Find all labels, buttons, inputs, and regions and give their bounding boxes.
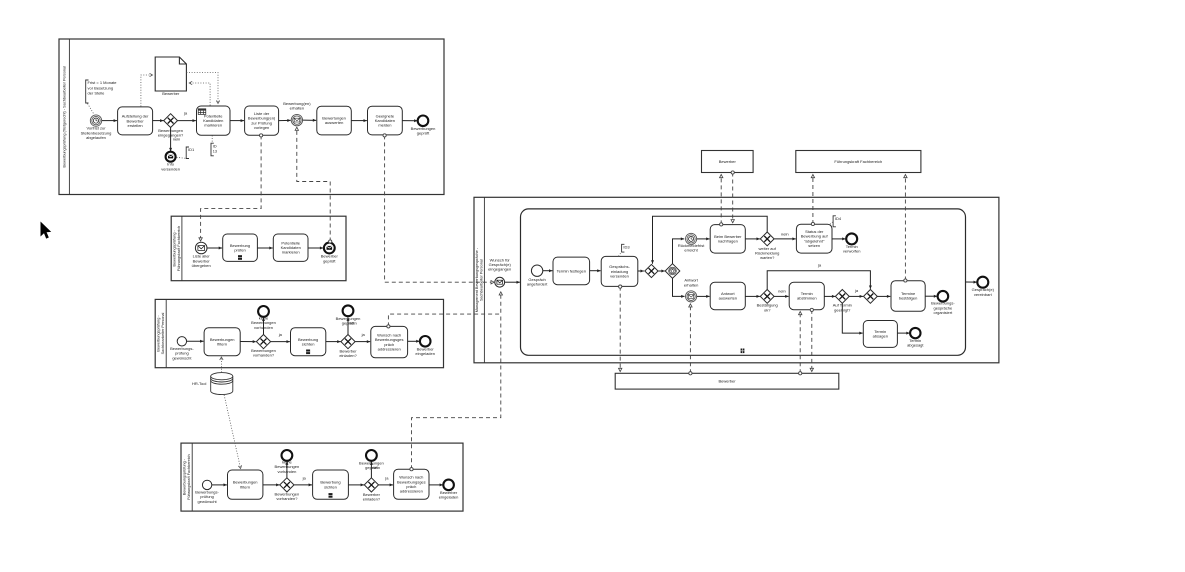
svg-text:Bewerbungsprüfung -: Bewerbungsprüfung - [157,315,161,352]
sequence flow subprocess to pool end [966,281,977,284]
pool: Management Bewerbungsgespräche - Sachbearbeiter Personal [474,197,999,362]
association HR-Tool to Bewerbungen filtern pool3 [220,357,223,372]
svg-text:sichten: sichten [324,484,337,489]
task: Wunsch nach Bewerbungsgespräch addressieren (pool4) [394,469,429,499]
svg-text:prüfen: prüfen [234,247,245,252]
svg-text:einladen?: einladen? [339,353,357,358]
association task2 to data object [189,81,210,105]
association task2 to ID13 [211,135,213,142]
gateway: Auf Termin geeinigt? [835,290,849,304]
end event: Termin verworfen [846,233,857,244]
message flow: Beim Bewerber nachfragen to Bewerber pool [720,175,723,226]
sequence flow [824,295,835,298]
sequence flow [774,295,788,298]
svg-text:Bewerber: Bewerber [719,159,737,164]
loopback ja from Bestätigung to merge2 [767,271,872,290]
association to ID3 [619,252,622,256]
message flow: Gesprächseinladung to Bewerber pool unten [619,285,622,372]
svg-text:übergeben: übergeben [192,263,211,268]
svg-text:auswerten: auswerten [719,296,737,301]
sequence flow [349,483,365,486]
task: Bewerbungen filtern (pool4) [228,470,263,499]
flow to end Bewerbungen geprüft [347,318,350,335]
svg-text:nein: nein [173,136,181,141]
svg-text:erstellen: erstellen [128,123,143,128]
gateway: Bewerbungen vorhanden? (pool3) [256,335,270,349]
svg-text:sichten: sichten [302,341,315,346]
sequence flow [102,119,117,122]
svg-text:der Stelle: der Stelle [88,91,106,96]
sequence flow [590,269,601,272]
svg-text:ID4: ID4 [835,216,842,221]
flow to end [285,462,288,478]
flow to end keine Bewerbungen [262,318,265,335]
end event: Bewerbungen geprüft (pool3) [343,305,354,316]
sequence flow [543,269,553,272]
svg-text:ID1: ID1 [188,147,195,152]
svg-text:warten?: warten? [760,255,775,260]
svg-text:nachfragen: nachfragen [718,239,738,244]
svg-text:13: 13 [213,150,217,154]
label nein [778,288,786,293]
message flow: Liste der Bewerbung(en) to pool2 start [199,134,263,241]
task: Bewertungen auswerten [317,106,352,135]
flow to end [370,462,373,478]
flow event-gw down to message catch [673,278,685,298]
end event: Bewerber eingeladen (pool3) [420,336,431,347]
svg-text:Management Bewerbungsgespräche: Management Bewerbungsgespräche - [475,247,479,312]
svg-text:gewünscht: gewünscht [172,355,192,360]
task: Bewerbung sichten (pool4) [313,470,349,499]
svg-text:verworfen: verworfen [843,249,861,254]
end event: Bewerbungen geprüft [418,116,429,127]
message flow: Wunsch nach (pool3) to pool5 start event [387,292,503,328]
svg-text:abgelaufen: abgelaufen [86,135,106,140]
end event: keine Bewerbungen vorhanden (pool4) [282,450,293,461]
start event: Bewerbungsprüfung gewünscht (pool3) [177,337,186,346]
pool: Führungskraft Fachbereich [796,151,921,173]
svg-text:nein: nein [349,320,357,325]
svg-text:vereinbart: vereinbart [974,292,993,297]
svg-text:filtern: filtern [217,341,227,346]
svg-text:versenden: versenden [610,274,629,279]
svg-text:nein: nein [778,288,786,293]
label ja [361,332,366,337]
sequence flow [355,340,370,343]
sequence flow [351,119,367,122]
gateway: Bestätigung ok? [760,290,774,304]
sequence flow [849,295,863,298]
timer intermediate event: Rückmeldefrist erreicht [686,233,697,244]
event-based gateway [665,264,680,279]
message flow: Wunsch nach (pool4) to pool5 start event [410,316,501,471]
subprocess marker [741,349,745,354]
sequence flow nein down [169,128,172,152]
message flow: Geeignete Kandidaten melden to pool5 start [383,134,494,284]
message flow: Bewerber pool to Beim Bewerber nachfragen [731,171,734,223]
sequence flow [326,340,341,343]
start event: Bewerbungsprüfung gewünscht (pool4) [202,480,211,489]
message flow: Termine bestätigen to Führungskraft pool [904,175,907,283]
sequence flow [774,237,796,240]
end event: Bewerbungsgespräche organisiert [938,291,949,302]
svg-text:addressieren: addressieren [400,489,423,494]
message flow: Termin abstimmen to Bewerber pool unten [810,308,813,371]
association HR-Tool to Bewerbungen filtern pool4 [224,395,242,469]
gateway: Bewerber einladen? (pool3) [341,335,355,349]
svg-text:eingegangen: eingegangen [488,267,511,272]
annotation ID 13 [211,143,217,156]
association data object to task2 [186,73,219,104]
task: Geeignete Kandidaten melden [368,106,403,135]
svg-text:addressieren: addressieren [378,347,401,352]
label ja [854,288,859,293]
svg-text:abgesagt: abgesagt [907,343,924,348]
task: Liste der Bewerbung(en) zur Prüfung vorlegen [245,106,279,135]
data object: Bewerber [155,57,186,91]
gateway: weiter auf Rückmeldung warten? [760,232,774,246]
message start event: Liste aller Bewerber übergeben [195,242,207,254]
svg-text:ok?: ok? [764,307,771,312]
svg-text:geprüft: geprüft [323,258,336,263]
sequence flow [408,340,420,343]
svg-text:einladen?: einladen? [363,497,381,502]
pool: Bewerbungsprüfung (fristgerecht) - Sachbearbeiter Personal [59,39,444,195]
label ja [183,111,188,116]
sequence flow [429,483,443,486]
svg-text:gewünscht: gewünscht [198,499,218,504]
message end event: Bewerber geprüft [324,243,335,254]
svg-text:Führungskraft Fachbereich: Führungskraft Fachbereich [177,226,181,271]
sequence flow [638,270,644,273]
sequence flow [925,295,937,298]
label nein [781,231,789,236]
svg-text:vorhanden?: vorhanden? [253,353,275,358]
pool: Bewerbungsprüfung - Führungskraft Fachbereich (unten) [181,443,463,511]
svg-text:Sachbearbeiter Personal: Sachbearbeiter Personal [161,312,165,354]
svg-text:Bewerbungsprüfung -: Bewerbungsprüfung - [172,230,176,267]
svg-text:angefordert: angefordert [527,282,548,287]
sequence flow [153,119,164,122]
sequence flow to subprocess [505,281,520,284]
task: Potentielle Kandidaten markieren (pool2) [273,234,308,261]
sequence flow [230,119,244,122]
task: Wunsch nach Bewerbungsgespräch addressieren (pool3) [371,326,408,357]
task: Potentielle Kandidaten markieren (pool1) [197,106,231,135]
sequence flow [258,247,273,250]
sequence flow [658,270,665,273]
task: Bewerbung sichten (pool3) [291,328,326,356]
sequence flow [279,119,291,122]
annotation ID1 [186,147,195,159]
svg-text:versenden: versenden [161,166,180,171]
sequence flow [697,295,710,298]
sequence flow [898,332,910,335]
sequence flow [379,483,393,486]
start event: Gespräch angefordert [531,265,542,276]
svg-text:Führungskraft Fachbereich: Führungskraft Fachbereich [834,159,882,164]
svg-text:ID3: ID3 [623,245,630,250]
label ja [302,476,307,481]
message flow: Status der Bewerbung to Führungskraft pool [811,175,814,226]
svg-text:eingeladen: eingeladen [439,495,459,500]
task: Termin festlegen [553,257,590,285]
svg-text:nein: nein [781,231,789,236]
sequence flow [303,119,317,122]
gateway: Bewerbungen vorhanden? (pool4) [280,478,294,492]
end event: Termin abgesagt [910,328,920,338]
gateway: Bewerber einladen? (pool4) [364,478,378,492]
message flow: Bewerber pool unten to Antwort erhalten [689,304,692,375]
subprocess container [521,209,966,355]
task: Aufstellung der Bewerber erstellen [118,107,153,135]
svg-text:markieren: markieren [282,250,300,255]
message catch event: Bewerbung(en) erhalten [291,114,302,125]
sequence flow [697,237,710,240]
flow event-gw up to timer [673,237,685,263]
svg-text:vorlegen: vorlegen [254,125,269,130]
svg-text:Bewerber: Bewerber [162,91,180,96]
task: Termin absagen [863,321,897,348]
timer start event: Vorfrist zur Stellenbesetzung abgelaufen [90,115,101,126]
svg-text:Bewerber: Bewerber [718,379,736,384]
end event: keine Bewerbungen vorhanden (pool3) [258,306,269,317]
association to ID1 [177,157,186,158]
task: Termin abstimmen [789,282,824,309]
sequence flow [745,295,760,298]
annotation ID3 [622,244,631,252]
task: Gesprächseinladung versenden [601,256,638,286]
gateway merge before event gateway [645,264,658,277]
svg-text:filtern: filtern [240,484,250,489]
svg-text:eingeladen: eingeladen [415,351,435,356]
pool: Bewerber (oben) [702,151,754,173]
task: Status der Bewerbung auf abgelehnt setzen [796,224,832,253]
sequence flow [745,237,760,240]
svg-text:vorhanden?: vorhanden? [276,496,298,501]
pool: Bewerber (unten) [615,373,839,389]
association annotation to timer start [88,104,94,114]
svg-text:Bewerbungsprüfung -: Bewerbungsprüfung - [183,458,187,495]
sequence flow [178,119,196,122]
end event: Bewerber eingeladen (pool4) [443,480,454,491]
gateway: Bewerbungen eingegangen? [164,114,178,128]
gateway merge2 [864,290,878,304]
task: Antwort auswerten [710,282,745,309]
task: Bewerbung prüfen [223,234,258,261]
annotation ID4 [833,216,842,227]
sequence flow [187,340,204,343]
label ja [278,332,283,337]
data store: HR-Tool [211,373,233,395]
svg-text:organisiert: organisiert [934,310,954,315]
task: Termine bestätigen [891,281,925,312]
svg-text:geprüft: geprüft [417,131,430,136]
svg-text:abstimmen: abstimmen [797,296,817,301]
task: Bewerbungen filtern (pool3) [204,328,240,356]
svg-text:absagen: absagen [873,334,888,339]
end event: Bewerbungen geprüft (pool4) [366,450,377,461]
flow Auf Termin nein down to Termin absagen [842,303,862,334]
svg-text:erhalten: erhalten [684,282,698,287]
loopback ja to merge gateway [651,216,767,263]
svg-text:Bewerbungsprüfung (fristgerech: Bewerbungsprüfung (fristgerecht) - Sachb… [62,66,66,168]
svg-text:nein: nein [373,465,381,470]
sequence flow [402,119,417,122]
message flow: pool2 end to Bewerbung(en) erhalten [295,127,332,243]
svg-text:melden: melden [378,123,391,128]
sequence flow [263,483,280,486]
message flow: Bewerber pool unten to Termin abstimmen [799,312,802,375]
svg-text:Sachbearbeiter Personal: Sachbearbeiter Personal [480,259,484,301]
sequence flow [294,483,312,486]
message start event: Wunsch für Gespräch(e) eingegangen [495,277,505,287]
svg-text:auswerten: auswerten [325,120,343,125]
svg-text:vorhanden: vorhanden [277,469,296,474]
pool: Bewerbungsprüfung - Sachbearbeiter Personal [155,299,443,367]
svg-text:vorhanden: vorhanden [254,325,273,330]
sequence flow [832,237,846,240]
svg-text:setzen: setzen [808,243,820,248]
svg-text:Termin festlegen: Termin festlegen [557,268,586,273]
label ja [384,476,389,481]
pool: Bewerbungsprüfung - Führungskraft Fachbereich (oben) [171,216,346,281]
sequence flow [877,295,890,298]
svg-text:Führungskraft Fachbereich: Führungskraft Fachbereich [187,454,191,499]
svg-text:bestätigen: bestätigen [899,296,917,301]
sequence flow [207,247,222,250]
task: Beim Bewerber nachfragen [710,225,745,254]
svg-text:HR-Tool: HR-Tool [192,381,207,386]
message end event: Info versenden [166,152,176,162]
label ja [817,262,822,267]
sequence flow [308,247,323,250]
association to ID4 [830,222,833,225]
svg-text:erreicht: erreicht [684,248,698,253]
end event: Gespräch(e) vereinbart [977,277,988,288]
association task1 to data object [141,73,153,106]
sequence flow [271,340,290,343]
sequence flow [212,483,227,486]
svg-text:markieren: markieren [204,123,222,128]
message catch event: Antwort erhalten [686,291,697,302]
mouse cursor [41,222,52,239]
annotation: Frist = 1 Monate vor Besetzung der Stelle [86,80,118,103]
svg-text:erhalten: erhalten [290,106,304,111]
sequence flow [240,340,256,343]
svg-text:ID: ID [213,144,217,148]
